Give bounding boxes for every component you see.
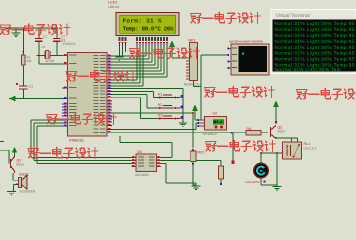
svg-text:FAN-DC5V: FAN-DC5V [246,180,260,184]
svg-text:Normal:31% Light:38% Temp:95: Normal:31% Light:38% Temp:95 [275,27,355,32]
svg-text:AMT1001 HUMIDITY SENSOR: AMT1001 HUMIDITY SENSOR [229,40,263,44]
svg-text:8050: 8050 [278,130,285,134]
svg-text:Normal:31% Light:38% Temp:95: Normal:31% Light:38% Temp:95 [275,51,355,56]
svg-text:AT89C51: AT89C51 [63,42,76,46]
svg-text:G5CLE-1: G5CLE-1 [304,147,318,151]
svg-text:SOUNDER: SOUNDER [19,190,36,194]
svg-text:X1: X1 [42,45,46,49]
svg-text:Virtual Terminal: Virtual Terminal [276,13,310,19]
svg-text:U3: U3 [137,150,142,154]
svg-text:C3: C3 [29,85,33,89]
svg-text:32768: 32768 [45,59,54,63]
svg-text:Temp: 89.0°C 26%: Temp: 89.0°C 26% [123,26,174,33]
svg-text:K1: K1 [158,93,162,97]
svg-text:Normal:31% Light:38% Temp:95: Normal:31% Light:38% Temp:95 [275,21,355,26]
svg-text:U2: U2 [213,112,218,116]
svg-text:Normal:31% Light:38% Temp:95: Normal:31% Light:38% Temp:95 [275,45,355,50]
svg-text:Form: 31 %: Form: 31 % [123,18,162,25]
svg-text:8550: 8550 [17,163,24,167]
svg-text:K2: K2 [158,103,162,107]
svg-text:Normal:31% Light:38% Temp:95: Normal:31% Light:38% Temp:95 [275,57,355,62]
svg-text:BUZ1: BUZ1 [19,173,28,177]
svg-text:K3: K3 [158,114,162,118]
svg-text:RV1: RV1 [198,151,205,155]
svg-text:DS18B20: DS18B20 [203,132,217,136]
svg-text:R4: R4 [247,127,252,131]
svg-text:AT89C51: AT89C51 [69,138,84,142]
svg-text:RL1: RL1 [304,142,311,146]
svg-text:10k: 10k [27,59,33,63]
svg-text:LM016L: LM016L [108,5,120,9]
svg-text:Normal:31% Light:38% Temp:95: Normal:31% Light:38% Temp:95 [275,39,355,44]
svg-text:RESPACK-8: RESPACK-8 [184,83,202,87]
svg-text:Normal:31% Light:38% Temp:95: Normal:31% Light:38% Temp:95 [275,33,355,38]
svg-text:ADC0832: ADC0832 [135,173,149,177]
svg-text:Normal:31% Light:38% Tem: Normal:31% Light:38% Tem [275,67,341,72]
svg-text:C1: C1 [43,35,47,39]
svg-text:C2: C2 [61,35,65,39]
svg-text:RP1: RP1 [189,39,196,43]
